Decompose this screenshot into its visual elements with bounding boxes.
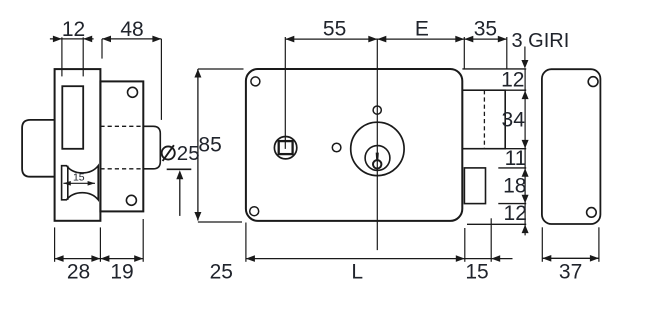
- deadbolt housing (back view): [462, 90, 505, 149]
- cylinder tab (side view, right): [143, 126, 160, 169]
- dimension 48 line: [102, 38, 161, 40]
- extension line 35 right: [506, 37, 508, 69]
- diameter symbol of label 25: [162, 146, 175, 159]
- small hole left of cylinder: [332, 143, 341, 152]
- dimension 12 extension lines: [61, 37, 63, 76]
- keyhole stem: [376, 153, 379, 161]
- svg-text:15: 15: [73, 172, 85, 184]
- dimension 35 arrows: [464, 36, 473, 43]
- svg-text:37: 37: [559, 260, 582, 283]
- 3 GIRI leader arrow: [521, 60, 528, 69]
- svg-text:34: 34: [502, 108, 526, 131]
- extension line 55 left: [284, 37, 286, 149]
- lock case front view: [246, 69, 462, 221]
- dimension 48 arrows: [102, 36, 111, 43]
- dimension 37 arrows: [542, 255, 551, 262]
- dimension 48 extension lines: [101, 39, 103, 59]
- svg-text:12: 12: [62, 18, 85, 41]
- diameter 25 leader arrow: [176, 170, 183, 179]
- hidden line top: [100, 125, 143, 127]
- diameter 25 underline: [167, 168, 192, 170]
- dimension 12 arrows: [53, 36, 62, 43]
- cylinder centerline: [376, 39, 378, 250]
- svg-text:35: 35: [474, 18, 497, 41]
- extension line E/35: [463, 37, 465, 69]
- dimension L/15 extension middle: [464, 228, 466, 262]
- case screw hole bottom-left: [250, 207, 259, 216]
- dimension 55 arrows: [285, 36, 294, 43]
- cylinder rose: [351, 122, 404, 175]
- dimension 85 top extension: [198, 68, 244, 70]
- keyhole circle: [373, 160, 381, 168]
- dimension 15 (spool) arrows: [63, 181, 70, 186]
- svg-text:28: 28: [67, 260, 90, 283]
- dimension 85 line: [197, 69, 199, 221]
- svg-text:55: 55: [323, 18, 346, 41]
- diameter 25 leader line: [179, 177, 181, 216]
- hidden line bottom: [100, 168, 143, 170]
- bottom extension lines (side view): [54, 227, 56, 261]
- roller spool outline: [62, 166, 99, 200]
- small hole above cylinder: [373, 106, 381, 114]
- cylinder plug: [365, 146, 390, 171]
- deadbolt hidden centerline: [483, 90, 485, 149]
- chain arrow at 203 down: [522, 195, 529, 204]
- dimension L extension left: [245, 223, 247, 262]
- dimension 15 right arrow: [491, 255, 500, 262]
- top dimension line 55/E/35: [285, 38, 507, 40]
- latch top projection tick: [498, 167, 526, 169]
- deadbolt housing bottom projection: [505, 148, 526, 150]
- chain arrow at 168 up: [522, 168, 529, 177]
- faceplate cutout: [62, 86, 83, 149]
- svg-text:L: L: [351, 261, 363, 284]
- dimension 85 arrows: [194, 69, 201, 78]
- top edge projection line: [462, 68, 526, 70]
- screw hole bottom (side view): [126, 195, 136, 205]
- chain arrow at 148 down: [522, 140, 529, 149]
- case screw hole top-left: [251, 77, 260, 86]
- dimension 15 (spool) line: [63, 182, 95, 184]
- svg-text:19: 19: [110, 260, 133, 283]
- bottom projection tick: [467, 223, 526, 225]
- svg-text:48: 48: [120, 18, 143, 41]
- right dimension chain line: [524, 69, 526, 236]
- faceplate (side view): [55, 69, 101, 221]
- dimension 19 arrows: [100, 255, 109, 262]
- lock body (side view): [100, 81, 143, 211]
- roller spool bar: [67, 166, 69, 200]
- bottom dimension line L/15: [246, 258, 513, 260]
- latch box (back view): [464, 168, 485, 204]
- dimension 15 extension right: [490, 218, 492, 261]
- dimension L arrows: [246, 255, 255, 262]
- svg-text:12: 12: [504, 202, 527, 225]
- latch bottom projection tick: [498, 203, 526, 205]
- dimension 37 line: [542, 257, 599, 259]
- svg-text:18: 18: [503, 175, 526, 198]
- strike plate screw hole top: [588, 77, 598, 87]
- screw hole top (side view): [128, 87, 138, 97]
- svg-text:E: E: [415, 18, 429, 41]
- svg-text:15: 15: [465, 261, 488, 284]
- dimension 28/19 line: [55, 258, 144, 260]
- strike plate: [542, 69, 601, 224]
- 3 GIRI leader line: [524, 47, 526, 63]
- chain arrow at 224 up: [522, 225, 529, 234]
- svg-text:3 GIRI: 3 GIRI: [512, 30, 570, 52]
- strike plate screw hole bottom: [587, 208, 597, 218]
- follower square: [279, 141, 293, 154]
- dimension 85 bottom extension: [198, 221, 242, 223]
- svg-text:25: 25: [210, 261, 233, 284]
- dimension 37 extension lines: [541, 227, 543, 261]
- svg-text:11: 11: [505, 147, 527, 170]
- dimension 12 line (top left): [50, 38, 94, 40]
- latch bolt (side view, left): [22, 120, 54, 177]
- follower circle: [274, 137, 296, 159]
- dimension E arrows: [377, 36, 386, 43]
- deadbolt housing top projection: [505, 89, 526, 91]
- svg-text:25: 25: [177, 142, 200, 165]
- chain arrow at 90 up: [522, 91, 529, 100]
- svg-text:85: 85: [198, 134, 221, 157]
- dimension 28 arrows: [55, 255, 64, 262]
- svg-text:12: 12: [501, 69, 524, 92]
